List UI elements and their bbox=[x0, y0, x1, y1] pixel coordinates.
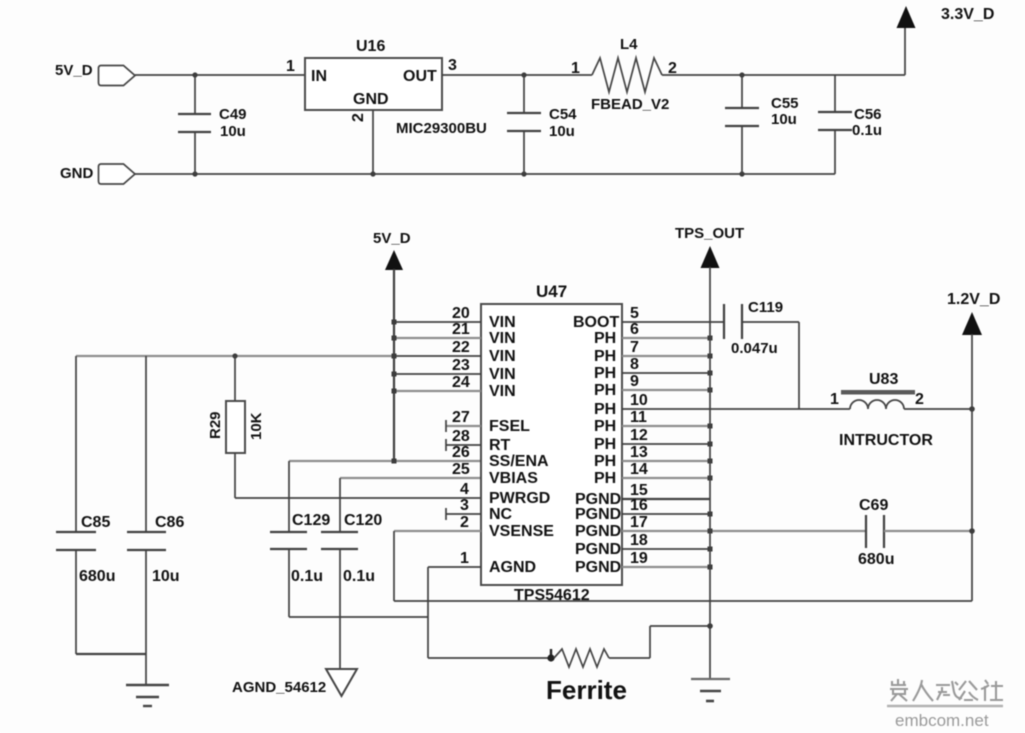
capacitor C120 bbox=[321, 478, 382, 669]
svg-text:27: 27 bbox=[452, 409, 470, 426]
svg-text:VIN: VIN bbox=[489, 314, 516, 331]
svg-text:16: 16 bbox=[630, 497, 648, 514]
junction R29 top bbox=[232, 353, 237, 358]
wire VBIAS pin25 bbox=[340, 477, 481, 479]
svg-text:22: 22 bbox=[452, 339, 470, 356]
pin 15 PGND bbox=[575, 482, 710, 508]
junction C54 top bbox=[521, 72, 526, 77]
svg-text:10u: 10u bbox=[220, 123, 246, 140]
svg-text:U16: U16 bbox=[356, 38, 385, 55]
svg-text:5V_D: 5V_D bbox=[373, 230, 411, 247]
pin 3 NC bbox=[446, 497, 513, 523]
svg-text:GND: GND bbox=[353, 91, 389, 108]
svg-text:MIC29300BU: MIC29300BU bbox=[396, 120, 487, 137]
pin 5 BOOT bbox=[573, 305, 723, 331]
svg-text:0.1u: 0.1u bbox=[343, 568, 375, 585]
svg-text:1: 1 bbox=[286, 58, 295, 75]
svg-text:PH: PH bbox=[594, 470, 616, 487]
svg-text:5V_D: 5V_D bbox=[55, 62, 93, 79]
op-amp U47 chip box bbox=[481, 282, 622, 604]
power arrow 1.2V_D bbox=[947, 291, 1000, 335]
wire VSENSE long rail bbox=[394, 600, 972, 602]
pin 12 PH bbox=[594, 427, 713, 453]
wire SS/ENA pin26 bbox=[289, 460, 481, 462]
svg-text:C49: C49 bbox=[219, 106, 247, 123]
wire 5V rail left bbox=[76, 355, 394, 357]
capacitor C55 bbox=[725, 75, 799, 174]
svg-text:C56: C56 bbox=[854, 106, 882, 123]
watermark chinese characters bbox=[890, 679, 1003, 701]
pin 2 U16 bbox=[350, 113, 367, 122]
svg-text:10u: 10u bbox=[771, 111, 797, 128]
junction C49 bottom bbox=[192, 171, 197, 176]
pin 26 SS/ENA bbox=[452, 444, 549, 470]
wire ferrite to ground bus bbox=[609, 626, 710, 658]
svg-text:PH: PH bbox=[594, 401, 616, 418]
pin 13 PH bbox=[594, 444, 713, 470]
capacitor C85 bbox=[56, 356, 115, 654]
svg-text:26: 26 bbox=[452, 444, 470, 461]
ground under C86 bbox=[126, 685, 169, 706]
wire U83 to 1.2V bbox=[904, 408, 972, 410]
svg-text:PGND: PGND bbox=[575, 559, 621, 576]
wire 5V_D vertical bbox=[393, 269, 395, 461]
svg-text:8: 8 bbox=[630, 356, 639, 373]
wire U16 OUT to L4 bbox=[442, 74, 592, 76]
pin 11 PH bbox=[594, 409, 713, 435]
svg-text:BOOT: BOOT bbox=[573, 314, 619, 331]
svg-text:PH: PH bbox=[594, 436, 616, 453]
svg-text:PH: PH bbox=[594, 453, 616, 470]
svg-text:1: 1 bbox=[460, 550, 469, 567]
svg-text:PH: PH bbox=[594, 382, 616, 399]
pin 7 PH bbox=[594, 339, 713, 365]
svg-text:3: 3 bbox=[448, 57, 457, 74]
svg-text:10K: 10K bbox=[248, 412, 265, 440]
svg-text:U47: U47 bbox=[536, 282, 567, 301]
svg-text:C85: C85 bbox=[81, 514, 110, 531]
pin 16 PGND bbox=[575, 497, 713, 523]
pin 3 U16 bbox=[448, 57, 457, 74]
junction C49 top bbox=[192, 72, 197, 77]
svg-text:2: 2 bbox=[350, 113, 367, 122]
pin 9 PH bbox=[594, 373, 713, 399]
svg-text:Ferrite: Ferrite bbox=[546, 675, 627, 705]
svg-text:11: 11 bbox=[630, 409, 647, 426]
svg-text:7: 7 bbox=[630, 339, 639, 356]
svg-text:21: 21 bbox=[452, 321, 470, 338]
svg-text:C69: C69 bbox=[859, 497, 888, 514]
pin 25 VBIAS bbox=[452, 461, 538, 487]
pin 4 PWRGD bbox=[460, 481, 550, 507]
svg-text:VIN: VIN bbox=[489, 330, 516, 347]
svg-text:R29: R29 bbox=[207, 411, 224, 439]
svg-text:4: 4 bbox=[460, 481, 469, 498]
svg-text:C120: C120 bbox=[344, 512, 382, 529]
svg-text:VIN: VIN bbox=[489, 383, 516, 400]
svg-text:FSEL: FSEL bbox=[489, 418, 530, 435]
pin 10 PH wire to inductor bbox=[594, 392, 850, 418]
pin 17 PGND wire to C69 bbox=[575, 514, 866, 540]
pin 14 PH bbox=[594, 461, 713, 487]
svg-text:10u: 10u bbox=[152, 568, 180, 585]
capacitor C86 bbox=[127, 356, 184, 685]
wire 1.2V_D vertical bbox=[971, 334, 973, 601]
junction U16 pin2 gnd bbox=[370, 171, 375, 176]
svg-text:PH: PH bbox=[594, 418, 616, 435]
junction 1.2V at inductor wire bbox=[969, 406, 975, 412]
capacitor C119 bbox=[724, 299, 799, 409]
svg-text:1: 1 bbox=[571, 60, 580, 77]
resistor R29 10K bbox=[207, 356, 265, 498]
capacitor C69 bbox=[858, 497, 972, 568]
op-amp U16 regulator box bbox=[305, 38, 487, 137]
svg-text:2: 2 bbox=[915, 391, 924, 408]
svg-text:13: 13 bbox=[630, 444, 648, 461]
ground main bbox=[691, 679, 730, 701]
svg-text:VBIAS: VBIAS bbox=[489, 470, 538, 487]
pin 23 VIN bbox=[392, 357, 516, 383]
pin 1 U16 bbox=[286, 58, 295, 75]
capacitor C56 bbox=[818, 75, 882, 174]
svg-text:0.047u: 0.047u bbox=[731, 340, 778, 357]
svg-text:GND: GND bbox=[60, 165, 94, 182]
pin 27 FSEL bbox=[446, 409, 530, 435]
svg-text:19: 19 bbox=[630, 550, 648, 567]
junction C54 bottom bbox=[521, 171, 526, 176]
svg-text:PWRGD: PWRGD bbox=[489, 490, 550, 507]
wire 3.3V_D riser bbox=[904, 27, 906, 75]
svg-text:C55: C55 bbox=[771, 95, 799, 112]
svg-text:VIN: VIN bbox=[489, 366, 516, 383]
junction ferrite left bbox=[547, 649, 554, 662]
svg-text:NC: NC bbox=[489, 506, 513, 523]
wire AGND bottom rail bbox=[289, 616, 428, 618]
pin 21 VIN bbox=[392, 321, 516, 347]
svg-text:IN: IN bbox=[311, 68, 327, 85]
junction ferrite at bus bbox=[707, 623, 713, 629]
svg-text:6: 6 bbox=[630, 321, 639, 338]
connector 5V_D bbox=[99, 66, 136, 86]
svg-text:10u: 10u bbox=[549, 123, 575, 140]
svg-text:680u: 680u bbox=[79, 568, 115, 585]
wire TPS_OUT bus bbox=[709, 267, 711, 679]
svg-text:18: 18 bbox=[630, 532, 648, 549]
svg-text:PH: PH bbox=[594, 330, 616, 347]
svg-text:PGND: PGND bbox=[575, 506, 621, 523]
svg-text:10: 10 bbox=[630, 392, 648, 409]
inductor U83 bbox=[830, 371, 933, 449]
svg-text:5: 5 bbox=[630, 305, 639, 322]
svg-text:C119: C119 bbox=[748, 299, 783, 316]
wire U16 GND pin2 bbox=[372, 110, 374, 174]
junction 5V at SS/ENA bbox=[392, 459, 397, 464]
svg-text:14: 14 bbox=[630, 461, 648, 478]
pin 22 VIN bbox=[392, 339, 516, 365]
junction C69 right bbox=[969, 528, 975, 534]
wire 5V_D to U16 IN bbox=[135, 74, 305, 76]
svg-text:PH: PH bbox=[594, 348, 616, 365]
svg-text:3.3V_D: 3.3V_D bbox=[941, 6, 994, 23]
capacitor C129 bbox=[270, 461, 330, 617]
svg-text:TPS_OUT: TPS_OUT bbox=[675, 225, 744, 242]
power arrow TPS_OUT bbox=[675, 225, 744, 268]
wire R29 to PWRGD pin4 bbox=[235, 497, 481, 499]
power arrow 3.3V_D bbox=[897, 6, 995, 28]
wire C85 to C86 bottom bbox=[76, 653, 146, 655]
svg-text:12: 12 bbox=[630, 427, 648, 444]
svg-text:1: 1 bbox=[830, 391, 839, 408]
junction C55 top bbox=[739, 72, 744, 77]
svg-text:PGND: PGND bbox=[575, 523, 621, 540]
svg-text:17: 17 bbox=[630, 514, 648, 531]
pin 20 VIN bbox=[392, 305, 516, 331]
node GND label bbox=[60, 165, 94, 182]
svg-text:2: 2 bbox=[460, 514, 469, 531]
junction C55 bottom bbox=[739, 171, 744, 176]
wire L4 to 3.3V bbox=[662, 74, 905, 76]
svg-text:3: 3 bbox=[460, 497, 469, 514]
svg-text:PH: PH bbox=[594, 365, 616, 382]
svg-text:24: 24 bbox=[452, 374, 470, 391]
svg-text:U83: U83 bbox=[869, 371, 898, 388]
svg-text:FBEAD_V2: FBEAD_V2 bbox=[591, 96, 669, 113]
svg-text:VSENSE: VSENSE bbox=[489, 523, 554, 540]
svg-text:0.1u: 0.1u bbox=[852, 122, 882, 139]
pin 1 AGND bbox=[428, 550, 536, 576]
ground AGND_54612 bbox=[232, 669, 357, 696]
svg-text:28: 28 bbox=[452, 428, 470, 445]
svg-text:9: 9 bbox=[630, 373, 639, 390]
watermark embcom.net bbox=[895, 711, 989, 730]
svg-text:SS/ENA: SS/ENA bbox=[489, 453, 549, 470]
pin 28 RT bbox=[446, 428, 511, 454]
pin 24 VIN bbox=[392, 374, 516, 400]
resistor Ferrite bbox=[546, 649, 627, 705]
svg-text:25: 25 bbox=[452, 461, 470, 478]
wire VSENSE vertical bbox=[393, 531, 395, 601]
watermark underline bbox=[887, 705, 1003, 708]
wire AGND to ferrite bbox=[428, 657, 552, 659]
wire AGND vertical bbox=[427, 567, 429, 658]
svg-text:AGND_54612: AGND_54612 bbox=[232, 679, 326, 696]
svg-text:VIN: VIN bbox=[489, 348, 516, 365]
power arrow 5V_D (bottom) bbox=[373, 230, 411, 270]
pin 18 PGND bbox=[575, 532, 713, 558]
svg-text:RT: RT bbox=[489, 437, 511, 454]
svg-text:0.1u: 0.1u bbox=[291, 568, 323, 585]
capacitor C49 bbox=[178, 75, 247, 174]
svg-text:INTRUCTOR: INTRUCTOR bbox=[839, 432, 933, 449]
svg-text:C129: C129 bbox=[292, 512, 330, 529]
wire GND rail bbox=[135, 173, 835, 175]
pin 2 VSENSE bbox=[394, 514, 554, 540]
svg-text:23: 23 bbox=[452, 357, 470, 374]
pin 19 PGND bbox=[575, 550, 713, 576]
svg-text:680u: 680u bbox=[858, 551, 894, 568]
svg-text:PGND: PGND bbox=[575, 541, 621, 558]
svg-text:OUT: OUT bbox=[403, 68, 437, 85]
capacitor C54 bbox=[507, 75, 577, 174]
svg-text:20: 20 bbox=[452, 305, 470, 322]
svg-text:C86: C86 bbox=[155, 514, 184, 531]
connector GND bbox=[99, 164, 136, 184]
svg-text:embcom.net: embcom.net bbox=[895, 711, 989, 730]
svg-text:C54: C54 bbox=[549, 106, 577, 123]
inductor L4 bbox=[571, 36, 677, 113]
pin 8 PH bbox=[594, 356, 713, 382]
svg-text:L4: L4 bbox=[620, 36, 638, 53]
node 5V_D label bbox=[55, 62, 93, 79]
svg-text:AGND: AGND bbox=[489, 559, 536, 576]
svg-text:1.2V_D: 1.2V_D bbox=[947, 291, 1000, 308]
pin 6 PH bbox=[594, 321, 713, 347]
